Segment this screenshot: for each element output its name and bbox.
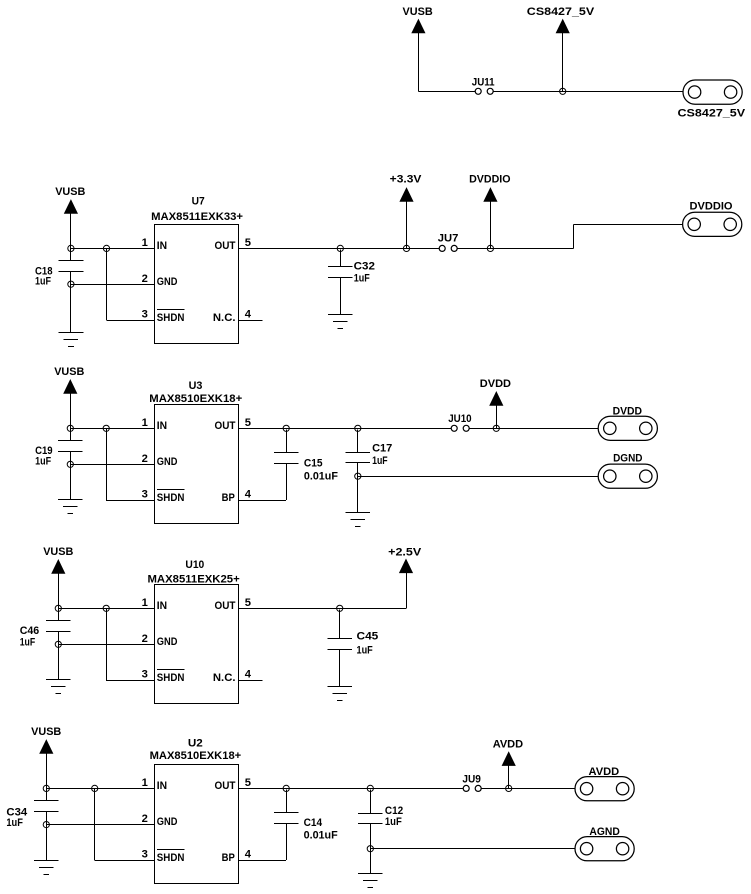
junction OUT/C15 [283,425,289,431]
wire N.C. stub (U7) [239,320,263,322]
svg-text:1: 1 [142,777,148,789]
wire JU9 to AVDD connector [481,788,575,790]
svg-text:C15: C15 [304,458,323,470]
svg-text:DVDDIO: DVDDIO [469,174,511,186]
wire VUSB drop (U10) [58,573,60,609]
regulator U3 MAX8510EXK18+ [149,380,242,523]
svg-text:DGND: DGND [613,453,642,465]
wire DGND to connector [358,476,598,478]
junction DVDDIO net [487,245,493,251]
svg-text:SHDN: SHDN [157,492,185,504]
capacitor C46 [20,621,71,649]
wire JU7 to riser [457,248,573,250]
power flag +3.3V [390,174,422,202]
jumper JU9 [462,774,481,792]
capacitor C17 [345,443,392,468]
wire VUSB drop (U2) [46,753,48,789]
svg-text:U10: U10 [185,559,204,571]
junction OUT/C45 [337,605,343,611]
svg-text:VUSB: VUSB [54,366,84,378]
svg-text:GND: GND [157,276,178,288]
capacitor C18 [35,261,83,288]
svg-text:1: 1 [142,597,148,609]
svg-text:1uF: 1uF [6,817,23,829]
junction DGND/C17 [355,473,361,479]
wire SHDN vertical (U7) [106,248,108,320]
svg-text:CS8427_5V: CS8427_5V [527,6,595,18]
power flag VUSB (U7) [55,186,85,213]
junction IN/SHDN (U7) [103,245,109,251]
svg-text:JU11: JU11 [472,76,495,88]
wire IN (U10) [58,608,154,610]
wire SHDN horizontal (U7) [107,320,155,322]
junction OUT/C14 [283,785,289,791]
svg-text:GND: GND [157,636,178,648]
junction DVDD net [493,425,499,431]
svg-text:SHDN: SHDN [157,672,185,684]
svg-text:2: 2 [142,273,148,285]
wire +3.3V drop [406,201,408,249]
junction GND/C34 [43,822,49,828]
wire SHDN horizontal (U3) [106,500,154,502]
wire GND (U10) [58,644,154,646]
junction IN/SHDN (U10) [103,605,109,611]
svg-text:2: 2 [142,453,148,465]
connector AGND [575,826,634,861]
junction AGND/C12 [367,846,373,852]
svg-text:BP: BP [222,852,236,864]
wire C18 bottom lead to ground [70,272,72,333]
svg-text:5: 5 [245,777,251,789]
connector CS8427_5V [678,80,746,119]
svg-text:IN: IN [157,240,167,252]
wire AGND to connector [370,848,575,850]
svg-text:+2.5V: +2.5V [388,546,422,558]
wire SHDN vertical (U2) [94,788,96,860]
wire VUSB drop (U7) [70,213,72,249]
junction OUT/C32 [337,245,343,251]
svg-text:IN: IN [157,780,167,792]
svg-text:MAX8511EXK25+: MAX8511EXK25+ [148,573,241,585]
svg-text:GND: GND [157,456,178,468]
svg-text:0.01uF: 0.01uF [304,830,338,842]
svg-text:1uF: 1uF [20,637,36,649]
wire IN (U2) [46,788,154,790]
wire DVDD drop [496,405,498,429]
wire OUT to JU9 (U2) [239,788,464,790]
wire OUT (U10) [239,608,407,610]
wire C19 top lead [70,428,72,440]
svg-text:VUSB: VUSB [31,726,61,738]
connector DVDD [598,406,657,441]
svg-text:VUSB: VUSB [55,186,85,198]
wire OUT to JU10 (U3) [239,428,452,430]
wire C45 bottom lead [339,649,341,686]
svg-text:JU7: JU7 [438,232,459,244]
wire N.C. stub (U10) [239,680,263,682]
ground (C45) [327,687,352,701]
svg-text:1uF: 1uF [385,816,402,828]
junction VUSB/C34 [43,785,49,791]
svg-text:DVDD: DVDD [480,378,511,390]
wire AVDD drop [508,765,510,789]
wire CS8427_5V flag drop [562,32,564,91]
power flag AVDD [493,739,523,766]
wire C45 top lead [339,609,341,638]
wire C14 top lead [286,789,288,812]
junction VUSB/C18 [68,245,74,251]
svg-text:C45: C45 [357,630,379,642]
regulator U10 MAX8511EXK25+ [148,559,241,704]
svg-text:5: 5 [245,597,251,609]
svg-text:DVDD: DVDD [613,406,642,418]
svg-text:3: 3 [142,309,148,321]
jumper JU10 [448,413,471,431]
wire JU11 to CS8427_5V connector [493,91,683,93]
power flag DVDD [480,378,511,405]
power flag VUSB (U3) [54,366,84,393]
regulator U2 MAX8510EXK18+ [150,738,242,884]
junction +3.3V net [403,245,409,251]
svg-text:4: 4 [245,309,252,321]
svg-text:OUT: OUT [215,240,236,252]
svg-text:MAX8510EXK18+: MAX8510EXK18+ [149,393,242,405]
svg-text:BP: BP [222,492,236,504]
svg-text:U2: U2 [188,738,203,750]
wire IN (U3) [70,428,154,430]
wire C15 bottom lead to BP [286,463,288,500]
wire BP (U2) [239,860,287,862]
capacitor C32 [328,260,375,284]
svg-text:4: 4 [245,669,252,681]
svg-text:1uF: 1uF [354,272,370,284]
svg-text:1: 1 [142,237,148,249]
svg-text:5: 5 [245,417,251,429]
svg-text:JU10: JU10 [448,413,471,425]
svg-text:VUSB: VUSB [43,546,73,558]
svg-text:CS8427_5V: CS8427_5V [678,107,746,119]
wire C14 bottom lead to BP [286,823,288,860]
svg-text:2: 2 [142,813,148,825]
svg-text:SHDN: SHDN [157,852,185,864]
svg-text:C32: C32 [354,260,375,272]
wire C12 top lead [370,789,372,813]
svg-text:3: 3 [142,669,148,681]
wire C46 top lead [58,608,60,620]
wire SHDN horizontal (U2) [95,860,155,862]
junction GND/C18 [68,281,74,287]
connector DGND [598,453,657,489]
capacitor C14 [274,813,338,842]
power flag +2.5V [388,546,422,572]
wire BP (U3) [239,500,287,502]
ground (C34) [34,861,59,875]
power flag VUSB (U10) [43,546,73,573]
svg-text:OUT: OUT [215,780,236,792]
capacitor C15 [274,453,338,483]
svg-text:IN: IN [157,600,167,612]
wire C17 top lead [357,429,359,452]
ground (C17) [345,513,370,527]
wire OUT to JU7 (U7) [239,248,440,250]
svg-text:3: 3 [142,489,148,501]
svg-text:C17: C17 [372,443,392,455]
svg-text:N.C.: N.C. [213,672,236,684]
svg-text:1uF: 1uF [35,276,51,288]
junction IN/SHDN (U3) [103,425,109,431]
power flag VUSB (U2) [31,726,61,753]
svg-text:U3: U3 [189,380,203,392]
wire C32 bottom lead [340,277,342,314]
wire GND (U3) [70,464,154,466]
svg-text:N.C.: N.C. [213,312,236,324]
svg-text:1uF: 1uF [35,456,51,468]
wire GND (U2) [46,824,154,826]
wire VUSB flag drop (top) [418,32,420,91]
svg-text:VUSB: VUSB [403,6,433,18]
wire C32 top lead [340,249,342,266]
wire JU10 to DVDD connector [469,428,598,430]
wire C18 top lead [70,248,72,261]
ground (C19) [58,500,83,514]
capacitor C45 [327,630,378,656]
wire C34 bottom lead to ground [46,811,48,860]
svg-text:3: 3 [142,849,148,861]
capacitor C34 [6,801,58,830]
jumper JU11 [472,76,495,94]
wire C15 top lead [286,429,288,452]
junction OUT/C12 [367,785,373,791]
svg-text:JU9: JU9 [462,774,481,786]
ground (C18) [59,333,84,347]
wire VUSB to JU11 [418,91,475,93]
power flag VUSB (top) [403,6,433,33]
jumper JU7 [438,232,459,251]
wire C12 bottom lead to ground [370,824,372,873]
junction GND/C19 [67,461,73,467]
ground (C46) [46,680,71,694]
junction VUSB/C46 [55,605,61,611]
wire GND (U7) [71,284,155,286]
svg-text:1: 1 [142,417,148,429]
svg-text:4: 4 [245,849,252,861]
junction IN/SHDN (U2) [92,785,98,791]
capacitor C19 [35,441,83,468]
wire riser vertical (DVDDIO) [573,224,575,248]
svg-text:U7: U7 [192,195,205,207]
svg-text:C46: C46 [20,625,40,637]
junction AVDD net [506,785,512,791]
wire DVDDIO drop [490,201,492,249]
svg-text:4: 4 [245,489,252,501]
ground (C32) [328,315,353,329]
power flag DVDDIO [469,174,511,202]
regulator U7 MAX8511EXK33+ [151,195,243,343]
junction GND/C46 [55,641,61,647]
svg-text:MAX8510EXK18+: MAX8510EXK18+ [150,750,242,762]
svg-text:1uF: 1uF [372,455,388,467]
svg-text:OUT: OUT [215,420,236,432]
ground (C12) [358,874,383,888]
wire +2.5V riser [406,572,408,608]
svg-text:IN: IN [157,420,167,432]
svg-text:AGND: AGND [589,826,619,838]
junction VUSB/C19 [67,425,73,431]
svg-text:AVDD: AVDD [493,739,523,751]
wire C17 bottom lead to ground [357,463,359,512]
wire VUSB drop (U3) [70,393,72,429]
svg-text:+3.3V: +3.3V [390,174,422,186]
svg-text:C14: C14 [304,817,323,829]
svg-text:0.01uF: 0.01uF [304,471,338,483]
svg-text:AVDD: AVDD [589,766,620,778]
wire riser horizontal to DVDDIO connector [574,224,683,226]
wire SHDN horizontal (U10) [106,680,154,682]
svg-text:GND: GND [157,816,178,828]
wire IN (U7) [71,248,155,250]
svg-text:1uF: 1uF [357,644,373,656]
junction OUT/C17 [355,425,361,431]
power flag CS8427_5V [527,6,595,33]
wire C34 top lead [46,788,48,800]
capacitor C12 [358,805,403,828]
wire SHDN vertical (U10) [106,608,108,680]
connector DVDDIO [683,200,742,236]
svg-text:SHDN: SHDN [157,312,185,324]
svg-text:5: 5 [245,237,251,249]
svg-text:DVDDIO: DVDDIO [690,200,733,212]
wire C19 bottom lead to ground [70,452,72,500]
wire SHDN vertical (U3) [106,428,108,500]
svg-text:MAX8511EXK33+: MAX8511EXK33+ [151,211,243,223]
svg-text:OUT: OUT [215,600,236,612]
wire C46 bottom lead to ground [58,632,60,680]
connector AVDD [575,766,634,801]
junction CS8427_5V net [560,88,566,94]
svg-text:2: 2 [142,633,148,645]
